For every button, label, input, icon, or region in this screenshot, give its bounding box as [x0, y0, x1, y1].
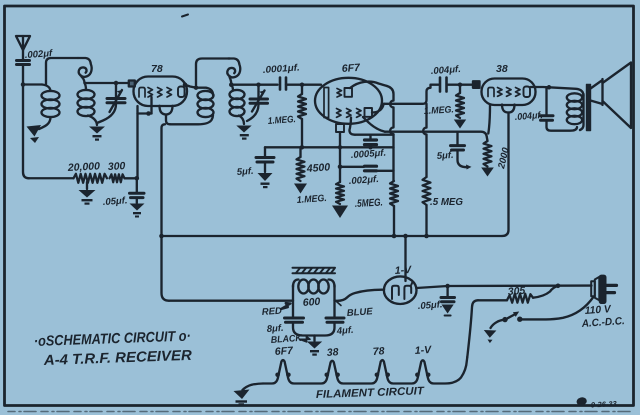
tube U3 38 envelope: [482, 79, 536, 113]
node .05 junction: [445, 284, 450, 289]
svg-text:BLACK: BLACK: [270, 333, 303, 346]
wire bus to 1-V top: [404, 236, 406, 281]
svg-text:5μf.: 5μf.: [436, 150, 454, 162]
switch wire to B- arrow: [484, 320, 505, 344]
capacitor .0001uf: [280, 78, 286, 90]
svg-text:1-V: 1-V: [394, 264, 412, 277]
wire grid 78: [85, 82, 130, 84]
wire bus B-: [162, 235, 503, 237]
wire rail C left: [340, 166, 364, 168]
wire rail C right: [377, 170, 394, 172]
choke center tap ground: [307, 336, 322, 356]
BLACK arrow: [300, 337, 311, 342]
ground T2 secondary: [236, 126, 251, 140]
resistor 300: [110, 174, 125, 182]
node bus left: [159, 234, 164, 239]
ground arrow 1MEG 38: [454, 120, 466, 129]
switch contact: [517, 317, 522, 322]
resistor .5MEG right: [423, 177, 431, 205]
6F7 cathode lead: [339, 132, 341, 182]
transformer T1 secondary top turn: [78, 58, 92, 83]
svg-text:.05μf.: .05μf.: [417, 299, 442, 312]
power plug: [591, 275, 616, 303]
wire plug to switch: [522, 297, 594, 320]
ground T1 secondary: [89, 127, 105, 141]
78 cathode: [139, 88, 145, 98]
78 grid g3: [167, 88, 172, 98]
svg-text:1-V: 1-V: [414, 344, 432, 357]
capacitor .002uf coupling: [365, 166, 377, 171]
node cathode V1: [338, 145, 343, 150]
node 1meg 38 grid: [458, 82, 463, 87]
node grid junction variable cap: [114, 81, 119, 86]
grid cap square 78: [129, 81, 135, 87]
svg-text:.5 MEG: .5 MEG: [430, 196, 463, 208]
capacitor 5uf 38 bias: [451, 132, 472, 170]
capacitor .004uf interstage: [440, 78, 447, 92]
node variable cap 2: [256, 82, 261, 87]
wire V3 .5MEG: [423, 104, 426, 177]
node bus .5meg: [392, 234, 397, 239]
ground between 20000 and 300: [79, 182, 96, 205]
6F7 pentode plate lead: [372, 104, 384, 113]
RED arrow: [281, 303, 291, 309]
ground arrow 1MEG detector: [332, 206, 348, 219]
wire screen line: [385, 132, 488, 141]
wire .0001 to 6F7 grid: [286, 84, 321, 86]
ground arrow 4500: [294, 184, 307, 194]
38 grid g2: [507, 88, 512, 97]
wire 1-V output: [417, 286, 592, 288]
svg-text:4500: 4500: [305, 161, 330, 175]
ground arrow 2000: [481, 168, 494, 177]
wire 38 plate: [531, 86, 550, 89]
node T2 grid top: [229, 82, 234, 87]
resistor 1MEG 38 grid: [459, 85, 461, 93]
resistor .5MEG left: [390, 181, 398, 206]
resistor 305: [507, 294, 533, 303]
svg-text:1.MEG.: 1.MEG.: [296, 193, 327, 206]
svg-text:6F7: 6F7: [274, 345, 294, 358]
78 grid g2: [158, 88, 163, 98]
capacitor 8uf: [285, 318, 304, 322]
transformer T1 primary coil: [39, 85, 60, 130]
resistor 4500: [299, 147, 301, 157]
svg-text:.004μf.: .004μf.: [514, 110, 543, 123]
svg-text:78: 78: [151, 63, 163, 75]
wire 78 plate: [185, 85, 214, 96]
wire T2 grid: [231, 84, 277, 86]
wire V2 with hops: [387, 86, 394, 181]
node cathode 78 junction: [135, 176, 140, 181]
transformer T2 secondary coil: [230, 85, 245, 124]
node bus 1-V: [403, 234, 408, 239]
choke left side with 8uf: [293, 285, 315, 336]
filament circuit loops: [263, 357, 467, 384]
variable capacitor C-tune1: [97, 83, 125, 123]
wire 78 base lead: [166, 115, 170, 125]
38 heater lead to bus: [502, 113, 509, 237]
node antenna junction: [21, 82, 26, 87]
switch blade: [505, 312, 519, 320]
6F7 triode plate lead: [350, 82, 387, 88]
node plug junction: [556, 284, 561, 289]
resistor 1MEG grid 6F7: [301, 85, 303, 94]
resistor 2000: [484, 141, 492, 167]
capacitor 5uf cathode: [256, 147, 274, 188]
wire plate riser to coupling turn: [196, 59, 230, 88]
capacitor .002uf: [17, 61, 30, 65]
svg-text:.002μf.: .002μf.: [348, 174, 379, 187]
6F7 grid clip below: [336, 124, 344, 132]
wire plate to output coil top: [549, 87, 584, 96]
svg-text:110 V: 110 V: [584, 303, 612, 317]
capacitor .0005uf: [365, 135, 377, 148]
output coil / speaker choke: [567, 93, 584, 130]
wire plate line to .004: [384, 85, 439, 104]
svg-text:600: 600: [302, 296, 320, 309]
transformer T1 secondary coil: [78, 83, 98, 125]
wire rail B: [355, 134, 394, 136]
svg-text:1.MEG.: 1.MEG.: [267, 114, 296, 127]
6F7 screen lead: [363, 117, 385, 132]
transformer T2 coupling turn: [227, 59, 240, 85]
38 cathode: [488, 88, 494, 97]
wire 305 to plug junction: [533, 286, 557, 297]
38 plate: [524, 87, 531, 98]
svg-text:300: 300: [108, 160, 126, 173]
node grid leak 1meg: [300, 82, 305, 87]
svg-text:5μf.: 5μf.: [236, 166, 254, 178]
capacitor .05uf line: [441, 286, 455, 316]
tube U1 78 envelope: [134, 77, 188, 115]
svg-text:.5MEG.: .5MEG.: [355, 197, 384, 210]
wire to T1 primary: [23, 83, 42, 85]
svg-text:.002μf: .002μf: [24, 48, 53, 61]
capacitor 4uf: [326, 318, 344, 322]
filament ground left: [234, 384, 264, 406]
transformer T2 primary coil: [198, 91, 214, 117]
svg-text:38: 38: [496, 63, 508, 75]
svg-text:.05μf.: .05μf.: [102, 195, 127, 208]
wire filament to line: [467, 300, 478, 357]
grid cap square 38: [473, 81, 480, 88]
svg-text:1.MEG.: 1.MEG.: [424, 104, 455, 117]
wire B+ feed horizontal: [170, 115, 213, 124]
stray mark top: [182, 15, 188, 17]
speaker horn: [591, 79, 603, 105]
node bus .5meg right: [424, 234, 429, 239]
wire down to bus: [162, 124, 170, 300]
variable capacitor C-tune2: [247, 85, 268, 121]
node 78 cathode tie: [146, 111, 151, 116]
date stamp blob: [577, 398, 586, 406]
wire antenna down: [23, 65, 29, 178]
antenna: [16, 36, 30, 59]
1-V filament glyph left: [392, 286, 399, 299]
svg-text:RED: RED: [261, 306, 282, 318]
choke right side with 4uf: [315, 285, 335, 336]
wire 78 suppressor to cathode bus: [136, 106, 138, 177]
svg-text:.004μf.: .004μf.: [430, 64, 461, 77]
node 78 plate: [183, 82, 188, 87]
svg-text:20,000: 20,000: [67, 160, 101, 174]
6F7 triode plate: [345, 88, 353, 97]
38 screen lead: [488, 105, 490, 134]
ground arrow T1 primary: [27, 125, 42, 143]
svg-text:4μf.: 4μf.: [335, 325, 354, 337]
svg-text:9-26-33: 9-26-33: [591, 399, 618, 409]
svg-text:38: 38: [326, 346, 339, 359]
6F7 triode grid: [337, 89, 342, 98]
wire cathode line: [265, 146, 394, 148]
wire .004 to 38 grid: [447, 84, 474, 86]
78 grid g1: [148, 88, 153, 98]
38 grid g1: [498, 88, 503, 97]
capacitor .05uf left: [130, 178, 145, 217]
wire antenna tap to secondary top turn: [46, 58, 78, 85]
6F7 pentode grids: [337, 109, 342, 118]
tube U4 1-V envelope: [384, 276, 417, 304]
svg-text:BLUE: BLUE: [346, 306, 373, 319]
capacitor .004uf tone: [540, 87, 577, 130]
node plate 38: [547, 85, 552, 90]
svg-text:8μf.: 8μf.: [266, 323, 284, 335]
speaker driver bar: [587, 85, 591, 131]
wire RED feed: [169, 300, 293, 302]
svg-text:6F7: 6F7: [341, 62, 361, 75]
1-V filament glyph right: [404, 282, 412, 300]
BLUE leader: [337, 302, 342, 306]
resistor 20000: [29, 177, 74, 179]
speaker cone: [603, 63, 632, 129]
78 plate: [178, 87, 185, 98]
6F7 pentode plate: [365, 108, 373, 117]
wire BLUE to 1-V: [335, 290, 385, 301]
6F7 cathode bar: [324, 88, 329, 118]
svg-text:78: 78: [372, 345, 385, 358]
tube U2 6F7 envelope: [315, 78, 382, 124]
6F7 pentode bottom grid lead: [349, 118, 355, 135]
switch pivot: [502, 317, 507, 322]
node cathode line left: [300, 145, 305, 150]
choke 600 lamination bar: [293, 268, 336, 273]
choke 600 coil loops: [293, 280, 335, 294]
38 grid g3: [516, 88, 521, 97]
node rail C: [338, 165, 343, 170]
78 cathode lead down: [150, 97, 152, 114]
filament nodes: [275, 373, 430, 378]
resistor 1MEG detector: [336, 182, 344, 204]
wire filament line to 305: [478, 299, 507, 301]
svg-text:305: 305: [507, 285, 525, 298]
